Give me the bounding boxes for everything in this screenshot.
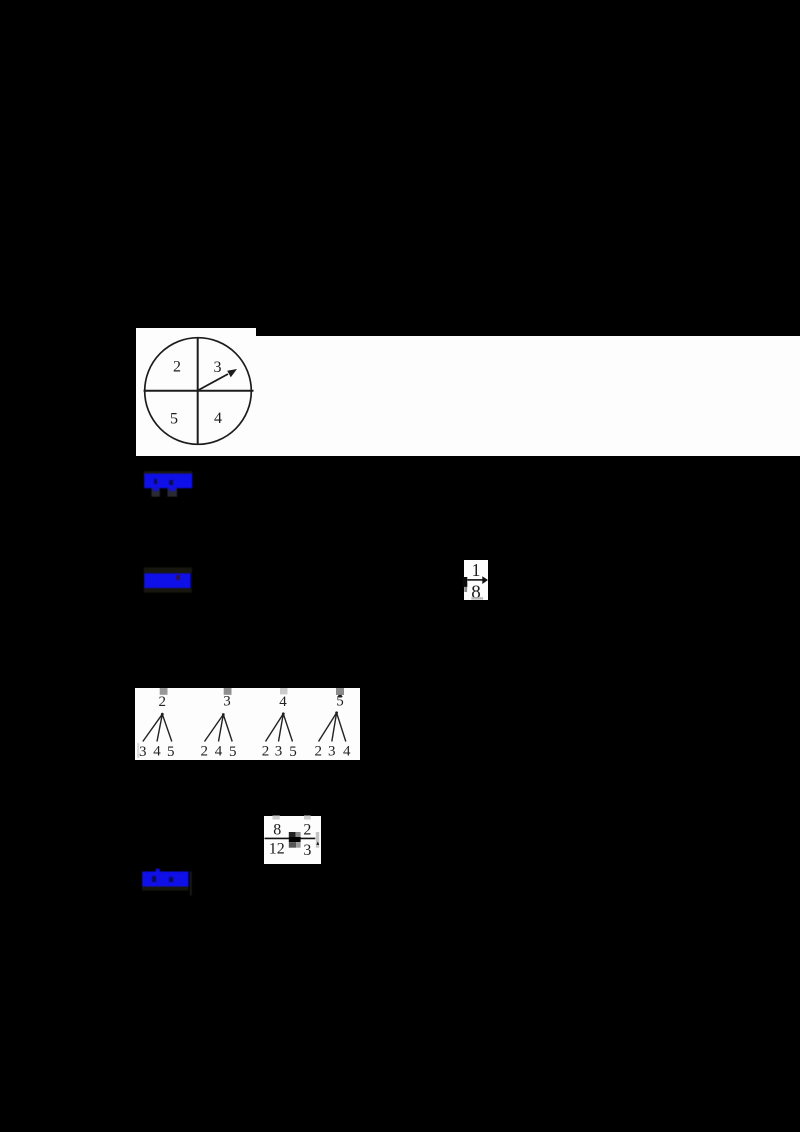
tree 1 lines bbox=[143, 714, 163, 741]
svg-text:3: 3 bbox=[139, 744, 147, 760]
fraction 1/8 box bbox=[464, 560, 488, 600]
fraction 8/12 = 2/3 box bbox=[264, 816, 321, 864]
small black mark bbox=[316, 842, 319, 845]
blue label 1 bbox=[138, 466, 208, 502]
white strip A: top of spinner image bbox=[136, 328, 256, 337]
top gray tabs bbox=[273, 816, 280, 820]
svg-text:4: 4 bbox=[214, 410, 222, 427]
svg-text:8: 8 bbox=[471, 582, 481, 603]
white band B: line box behind spinner extending to right edge bbox=[136, 336, 800, 456]
tree 3 lines bbox=[266, 714, 284, 742]
svg-text:12: 12 bbox=[269, 841, 285, 858]
svg-text:3: 3 bbox=[303, 842, 311, 859]
svg-text:5: 5 bbox=[167, 744, 175, 760]
spinner figure bbox=[130, 320, 270, 460]
gray square 4 bbox=[336, 688, 344, 695]
gray square 1 bbox=[160, 688, 168, 695]
svg-text:2: 2 bbox=[315, 744, 323, 760]
gray square 3 bbox=[280, 688, 288, 694]
gray square 2 bbox=[224, 688, 232, 695]
spinner arrow bbox=[198, 374, 228, 391]
svg-text:2: 2 bbox=[173, 358, 181, 375]
svg-text:4: 4 bbox=[215, 744, 223, 760]
svg-text:2: 2 bbox=[201, 744, 209, 760]
spinner vertical line bbox=[197, 338, 199, 444]
tree diagram box bbox=[135, 688, 361, 760]
black equals blob bbox=[289, 832, 296, 837]
tree 4 lines bbox=[319, 713, 337, 742]
svg-text:3: 3 bbox=[275, 744, 283, 760]
svg-text:2: 2 bbox=[303, 822, 311, 839]
svg-text:1: 1 bbox=[472, 560, 481, 580]
svg-text:2: 2 bbox=[159, 694, 167, 710]
spinner circle bbox=[145, 338, 252, 445]
svg-text:5: 5 bbox=[289, 744, 297, 760]
fraction bar full bbox=[265, 837, 316, 839]
svg-text:4: 4 bbox=[343, 744, 351, 760]
svg-text:8: 8 bbox=[273, 822, 281, 839]
svg-text:4: 4 bbox=[279, 694, 287, 710]
black blob left bbox=[463, 577, 468, 587]
fraction bar with arrow bbox=[468, 579, 484, 581]
svg-text:4: 4 bbox=[153, 744, 161, 760]
svg-text:2: 2 bbox=[262, 744, 270, 760]
svg-text:3: 3 bbox=[214, 359, 222, 376]
blue label 2 bbox=[138, 562, 208, 598]
svg-text:5: 5 bbox=[170, 410, 178, 427]
blue label 3 bbox=[136, 864, 206, 900]
svg-text:5: 5 bbox=[229, 744, 237, 760]
left edge light mark bbox=[137, 743, 139, 758]
svg-text:5: 5 bbox=[336, 694, 344, 710]
spinner horizontal line bbox=[144, 390, 254, 392]
svg-text:3: 3 bbox=[328, 744, 336, 760]
tree 2 lines bbox=[205, 715, 224, 742]
right gray strip bbox=[316, 832, 319, 848]
svg-text:3: 3 bbox=[223, 694, 231, 710]
